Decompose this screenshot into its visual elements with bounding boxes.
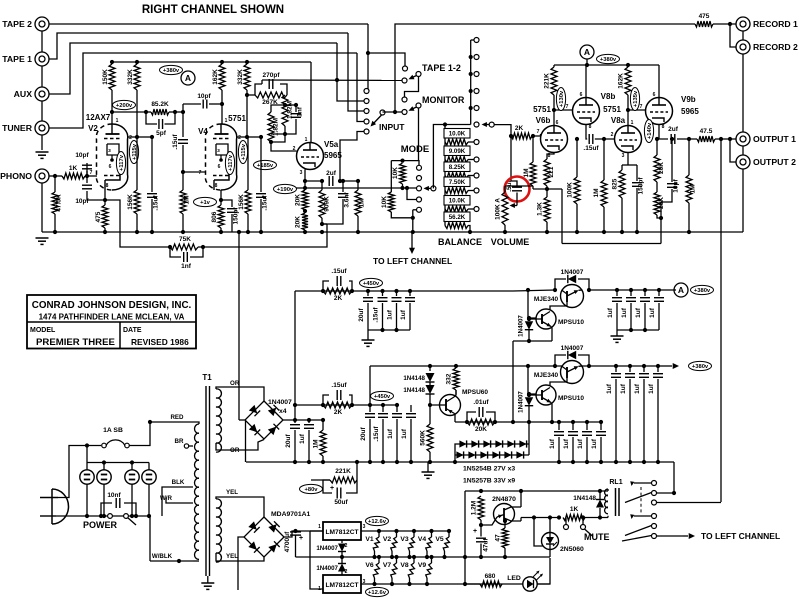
phono sleeve wire <box>41 176 43 232</box>
rail corner to 221K <box>553 65 555 67</box>
relay contact wires <box>657 492 675 494</box>
svg-text:RL1: RL1 <box>609 479 622 486</box>
svg-text:1N4007: 1N4007 <box>268 399 292 406</box>
net +200v <box>113 100 136 109</box>
jack TAPE 2 <box>35 17 49 31</box>
svg-text:BLK: BLK <box>172 479 185 486</box>
switch MODE wiper <box>431 186 436 191</box>
capacitor .15uf coupling1 <box>178 139 188 141</box>
wire phono to 1K <box>49 175 62 177</box>
svg-text:1M: 1M <box>593 188 600 197</box>
svg-text:221K: 221K <box>544 73 551 89</box>
wire 162K down <box>627 65 629 67</box>
wire 156K v2 bot <box>136 214 138 232</box>
svg-text:1uf: 1uf <box>606 383 613 394</box>
wire 1M stub <box>357 181 359 190</box>
wire 825 bot <box>621 198 623 232</box>
net +140v <box>644 120 653 143</box>
tube V8a (5751) <box>615 126 642 153</box>
resistor 47 <box>502 528 508 548</box>
wire output fb drop <box>720 139 722 502</box>
svg-text:RECORD 1: RECORD 1 <box>753 19 798 29</box>
resistor 1.82M (2) <box>268 112 274 142</box>
svg-text:.15uf: .15uf <box>262 195 269 211</box>
svg-text:1uf: 1uf <box>635 307 642 318</box>
node V4 plate2 <box>245 135 249 139</box>
wire 4148 to base <box>430 394 439 405</box>
svg-text:1: 1 <box>225 118 228 124</box>
node v8a plate junction <box>626 108 630 112</box>
svg-text:1N4007: 1N4007 <box>316 565 338 572</box>
wire 2K to grid <box>532 135 541 137</box>
wire V8a cathode <box>627 153 629 166</box>
node 2K s2 right <box>350 403 354 407</box>
+450 rail 2 <box>295 404 397 406</box>
svg-text:10pf: 10pf <box>75 152 89 159</box>
resistor 47.5 <box>697 136 715 142</box>
svg-text:8: 8 <box>106 183 109 189</box>
wire AUX riser <box>49 43 337 94</box>
svg-text:CONRAD JOHNSON DESIGN, INC.: CONRAD JOHNSON DESIGN, INC. <box>32 300 192 311</box>
node tape2/tuner <box>366 51 370 55</box>
ground T1 core <box>201 582 214 584</box>
dc bus right corner <box>673 462 675 493</box>
wire V4 cathode <box>220 190 222 205</box>
node mix2 <box>269 140 273 144</box>
svg-text:8: 8 <box>548 153 551 159</box>
node 529 341 <box>527 339 531 343</box>
wire vol pot bot <box>504 225 506 232</box>
resistor 10K (mode upper) <box>400 163 406 184</box>
zener A 523 <box>519 440 526 447</box>
wire 1M bleeder top <box>322 420 324 430</box>
svg-text:1N4007: 1N4007 <box>316 545 338 552</box>
capacitor 1uf g559 <box>554 431 564 433</box>
svg-text:OUTPUT 2: OUTPUT 2 <box>753 157 796 167</box>
svg-text:4700uf: 4700uf <box>284 531 291 552</box>
diode 1N4007 7812a <box>338 544 346 552</box>
wire V6b grid stub <box>540 134 542 136</box>
node 162K top <box>220 60 224 64</box>
node 10K tap <box>400 159 404 163</box>
node c5 out <box>338 179 342 183</box>
node timer 481 <box>479 489 483 493</box>
svg-text:+380v: +380v <box>600 57 617 63</box>
svg-text:+450v: +450v <box>374 394 391 400</box>
wire V2 cathode <box>104 190 106 205</box>
wire 1K to V2 grid <box>85 175 97 177</box>
record bus contacts <box>474 38 479 43</box>
feedback loop to V6b cathode <box>660 202 662 244</box>
node 47 mid rail <box>503 555 507 559</box>
resistor 20K (upper) <box>302 190 308 210</box>
node 909K bottom <box>320 222 324 226</box>
wire fb2 junction <box>322 223 327 225</box>
wire 1.3K to bus <box>546 222 548 232</box>
svg-text:MUTE: MUTE <box>584 532 610 542</box>
node rail lower 528 <box>526 364 530 368</box>
capacitor .15uf + resistor 2K (stage1) <box>323 281 329 291</box>
diode 1N4007 base chain (upper) <box>529 318 536 320</box>
wire 80v left <box>311 479 330 481</box>
svg-text:1M: 1M <box>690 184 697 193</box>
capacitor 4700uf plates <box>290 531 301 533</box>
svg-text:7.50K: 7.50K <box>449 179 466 186</box>
wire 5060 cathode <box>549 550 551 558</box>
node 2K left <box>509 134 513 138</box>
resistor 1M (V4 grid) <box>180 190 186 214</box>
wire zener feed <box>528 422 530 455</box>
svg-text:MJE340: MJE340 <box>534 372 559 379</box>
capacitor .01uf + resistor 20K <box>467 412 476 422</box>
svg-text:MDA9701A1: MDA9701A1 <box>271 511 311 518</box>
node 267K tap <box>245 93 249 97</box>
resistor 10K (mode lower) <box>388 192 394 212</box>
node dcbus 323 <box>321 460 325 464</box>
net +190v <box>274 184 297 193</box>
node ref 529 <box>527 420 531 424</box>
zener string row A (1N5254B/1N5257B) <box>458 443 529 445</box>
wire 332 stub <box>455 366 457 368</box>
capacitor 10pf (lower) <box>82 184 92 186</box>
wire 2N4870 b1 <box>520 518 522 522</box>
wire fb left <box>105 200 170 247</box>
svg-text:56.2K: 56.2K <box>449 214 466 221</box>
diode 1N4007 base chain (lower) <box>529 394 536 396</box>
wire 156K v2 top <box>136 137 138 190</box>
wire TUNER riser <box>49 53 357 128</box>
node A marker <box>181 71 195 85</box>
svg-text:1uf: 1uf <box>401 428 408 439</box>
capacitor 1uf u645 <box>640 297 650 299</box>
svg-text:MPSU10: MPSU10 <box>558 319 584 326</box>
svg-text:20K: 20K <box>295 194 302 206</box>
resistor 10.0K (ladder 5) <box>445 206 468 212</box>
resistor 2K s2 <box>323 402 352 408</box>
+450 rail 1 <box>295 290 513 292</box>
node record tap <box>393 110 397 114</box>
capacitor 50uf <box>323 480 332 493</box>
svg-text:LM7812CT: LM7812CT <box>326 582 359 589</box>
svg-text:W/R: W/R <box>160 495 173 502</box>
wire record out <box>433 125 470 189</box>
node dc+ 295 <box>293 418 297 422</box>
ladder bottom to bus <box>468 226 470 233</box>
resistor 1.82M (1) <box>282 95 288 126</box>
capacitor .15uf V4 plates <box>256 193 266 195</box>
svg-text:12AX7: 12AX7 <box>86 113 111 122</box>
capacitor 10pf plates v9b <box>667 183 677 185</box>
wire out y181b <box>338 180 360 182</box>
wire mode c4 tie <box>407 188 417 200</box>
svg-text:LED: LED <box>507 575 521 582</box>
svg-text:.15uf: .15uf <box>373 426 380 442</box>
capacitor .15uf (interstage) <box>588 134 590 144</box>
wire 332 to collector <box>455 390 457 395</box>
node dcbus 357 <box>355 460 359 464</box>
wire 20K v9b riser <box>656 139 658 155</box>
wire v2 plate tie <box>137 136 152 138</box>
vertical TAPE1 drop <box>348 33 364 111</box>
svg-text:+130v: +130v <box>559 90 565 107</box>
resistor 85.2K <box>151 109 169 115</box>
resistor 221 (V6b k) <box>544 159 550 186</box>
record bus wiper arrow <box>486 124 492 126</box>
svg-text:1N4007: 1N4007 <box>561 269 584 276</box>
net +450v (1) <box>360 278 383 287</box>
svg-text:1474 PATHFINDER LANE MCLEAN: 1474 PATHFINDER LANE MCLEAN, VA <box>39 313 185 322</box>
resistor 47.5K <box>52 192 58 214</box>
wire 85.2K right stub <box>169 111 183 113</box>
zener A 463 <box>459 440 466 447</box>
tube V2 (12AX7) <box>112 124 128 190</box>
resistor 475 (record) <box>695 21 713 27</box>
svg-text:1uf: 1uf <box>299 433 306 444</box>
net +380v (amp) <box>597 54 620 63</box>
node A marker 3 <box>674 283 688 297</box>
wire 47 bot <box>504 548 506 557</box>
svg-text:V2: V2 <box>88 124 98 133</box>
vertical AUX drop <box>337 43 364 101</box>
wire OR top <box>225 387 264 401</box>
svg-text:150pf: 150pf <box>638 177 645 195</box>
capacitor 1uf u659 <box>654 297 664 299</box>
svg-text:332K: 332K <box>127 69 134 85</box>
svg-text:221: 221 <box>548 166 555 177</box>
svg-text:1N4007: 1N4007 <box>518 391 525 413</box>
resistor 1M (V8a grid) <box>601 180 607 207</box>
svg-text:+: + <box>299 535 303 542</box>
jack TUNER <box>35 121 49 135</box>
wire rail2 to rail366 <box>369 366 371 405</box>
zener A 511 <box>507 440 514 447</box>
svg-text:YEL: YEL <box>226 489 238 496</box>
svg-text:3: 3 <box>363 524 366 530</box>
ladder left rail <box>444 125 446 226</box>
wire out y181 <box>305 180 324 182</box>
svg-text:5751: 5751 <box>228 114 246 123</box>
switch MONITOR <box>402 97 407 102</box>
tube V9b (5965) <box>646 98 673 125</box>
wire YEL bottom <box>222 557 264 561</box>
wire 5060 anode <box>549 518 551 533</box>
svg-text:1uf: 1uf <box>620 383 627 394</box>
node 150K top <box>110 60 114 64</box>
wire mode c5 drop <box>413 209 417 211</box>
jack sleeve right mid <box>742 54 744 132</box>
regulator LM7812CT (2) <box>323 575 361 593</box>
wire TAPE2 to selector <box>49 23 368 25</box>
zener B 520 <box>516 451 523 458</box>
wire bridge left <box>239 419 245 421</box>
wire 1M v8a bot <box>603 207 605 232</box>
wire bridge right dc+ <box>283 419 323 421</box>
node timer 521 <box>519 489 523 493</box>
svg-text:V5: V5 <box>435 536 444 543</box>
svg-text:332: 332 <box>446 373 453 384</box>
svg-text:V6: V6 <box>365 562 374 569</box>
svg-text:.01uf: .01uf <box>473 399 489 406</box>
wire 1.82M2 top <box>271 105 285 112</box>
svg-text:100K: 100K <box>567 182 574 198</box>
tap BR <box>189 445 193 447</box>
svg-text:475: 475 <box>95 211 102 222</box>
svg-text:.15uf: .15uf <box>331 268 347 275</box>
wire mix down <box>271 134 285 142</box>
svg-text:V1: V1 <box>365 536 374 543</box>
svg-text:.15uf: .15uf <box>373 307 380 323</box>
svg-text:+140v: +140v <box>647 122 653 139</box>
label box 7.50K <box>444 177 470 187</box>
svg-text:+135v: +135v <box>633 90 639 107</box>
svg-text:+450v: +450v <box>363 281 380 287</box>
svg-text:+380v: +380v <box>692 364 709 370</box>
wire v450 riser <box>294 291 296 420</box>
wire bridge2 right <box>284 531 323 537</box>
wire tape2 to c1 <box>366 89 368 91</box>
svg-text:7: 7 <box>90 170 93 176</box>
svg-text:1M: 1M <box>184 195 191 204</box>
capacitor 1uf g587 <box>582 431 592 433</box>
wire 20K mid <box>656 182 658 192</box>
wire record feed <box>395 24 695 112</box>
svg-text:6: 6 <box>556 120 559 126</box>
net +380v (upper) <box>691 285 714 294</box>
wire 47.5K bottom <box>54 214 56 232</box>
ground dc bus <box>422 471 435 473</box>
arrow to left channel (mode) <box>411 232 413 248</box>
svg-text:20K: 20K <box>475 426 487 433</box>
wire zener to bus <box>454 455 456 462</box>
wire bridge2 left <box>238 537 244 590</box>
svg-text:1N4007: 1N4007 <box>561 345 584 352</box>
svg-text:1: 1 <box>116 118 119 124</box>
node 1M top <box>356 179 360 183</box>
wire 10K1 bottom <box>402 184 404 188</box>
wire mpsu60 emitter <box>454 414 457 423</box>
capacitor 1uf s1 <box>392 297 402 299</box>
wire OR bottom <box>225 440 264 451</box>
jack RECORD 1 <box>736 17 750 31</box>
svg-text:7: 7 <box>566 104 569 110</box>
diode 1N4007 bypass (lower) <box>555 355 566 366</box>
capacitor 1nf plates <box>183 252 185 262</box>
svg-text:1uf: 1uf <box>648 383 655 394</box>
wire 47.5K to bus <box>54 176 56 192</box>
resistor 2K s1 <box>323 288 352 294</box>
node 3.6nf top <box>341 179 345 183</box>
wire 100K bot <box>576 204 578 232</box>
wire 825 tie <box>622 164 637 166</box>
svg-text:1uf: 1uf <box>649 307 656 318</box>
svg-text:3: 3 <box>622 153 625 159</box>
svg-text:V4: V4 <box>198 127 208 136</box>
switch POWER <box>108 514 113 519</box>
switch MUTE <box>565 518 567 525</box>
node 332K top <box>135 60 139 64</box>
node V2 grid <box>85 174 89 178</box>
svg-text:6: 6 <box>218 164 221 170</box>
svg-text:1K: 1K <box>69 165 78 172</box>
AC hot wire <box>58 446 101 498</box>
transistor MPSU60 <box>440 395 461 416</box>
wire 100K riser <box>576 139 578 177</box>
node 47uf bot <box>479 555 483 559</box>
node aux y80 <box>335 78 339 82</box>
transistor MJE340 (lower) <box>561 361 584 384</box>
svg-text:V9b: V9b <box>681 95 696 104</box>
node ref 513 <box>511 420 515 424</box>
wire bridge left corner to bus <box>245 421 247 462</box>
capacitor .15uf V2 plates <box>147 193 157 195</box>
node 47uf top <box>479 523 483 527</box>
wire y189 tie <box>505 185 533 187</box>
wire 1M out riser <box>688 139 690 175</box>
wire base feed lower <box>528 366 536 394</box>
wire upper base chain join <box>513 340 552 342</box>
svg-text:V4: V4 <box>418 536 427 543</box>
svg-text:A: A <box>584 47 590 57</box>
node fb right <box>201 245 205 249</box>
svg-text:A: A <box>185 73 191 83</box>
ladder contact 5 <box>468 208 474 210</box>
resistor 1.2M <box>478 496 484 520</box>
label box 8.25K <box>444 162 470 172</box>
svg-text:10.0K: 10.0K <box>449 130 466 137</box>
svg-text:1K: 1K <box>570 506 579 513</box>
svg-text:47.5: 47.5 <box>700 128 713 135</box>
svg-text:10.0K: 10.0K <box>449 197 466 204</box>
wire A stub <box>586 59 588 65</box>
resistor 20K (lower) <box>302 213 308 230</box>
svg-text:2K: 2K <box>515 125 524 132</box>
svg-text:PHONO: PHONO <box>0 171 32 181</box>
node plate V2 <box>110 110 114 114</box>
svg-text:1N4148: 1N4148 <box>403 375 425 382</box>
ground filter s1 <box>362 339 375 341</box>
T1 secondary HV winding <box>216 389 221 452</box>
wire 332K to plate node <box>136 90 138 137</box>
svg-text:1N5254B 27V x3: 1N5254B 27V x3 <box>463 466 515 473</box>
node 1M v8a top <box>602 137 606 141</box>
svg-text:1uf: 1uf <box>577 438 584 449</box>
wire out to 47.5 <box>677 138 697 140</box>
capacitor 1uf u631 <box>626 297 636 299</box>
wire tape12 feed <box>368 53 405 66</box>
record1 475 <box>694 23 696 25</box>
net +12.6v (1) <box>366 516 389 525</box>
title block box <box>27 295 196 349</box>
+380 rail (lower) <box>370 365 589 367</box>
svg-text:1M: 1M <box>313 439 320 448</box>
wire 680 feed <box>465 583 480 585</box>
wire 156K v4 bot <box>247 214 249 232</box>
node 332 top <box>454 364 458 368</box>
svg-text:T1: T1 <box>202 373 212 382</box>
svg-text:+380v: +380v <box>163 68 180 74</box>
node .15uf v2b <box>150 135 154 139</box>
capacitor 1nf (V5a) <box>295 105 297 112</box>
capacitor 1uf r630 <box>625 373 635 375</box>
node 190v <box>303 179 307 183</box>
wire 162K to V4 plate <box>221 90 223 124</box>
annotation red circle <box>505 177 530 202</box>
diode 1N4148 relay body <box>596 500 604 508</box>
wire y80 left drop <box>261 80 263 84</box>
resistor 150K <box>109 64 115 90</box>
svg-text:YEL: YEL <box>226 553 238 560</box>
svg-text:9.09K: 9.09K <box>449 148 466 155</box>
